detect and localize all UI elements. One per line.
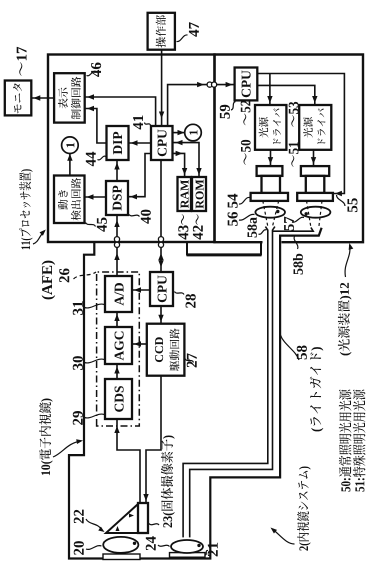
- block DIP 44: [107, 126, 129, 160]
- label 23 CCD sensor: [149, 435, 175, 527]
- label light source device 12: [338, 242, 353, 355]
- objective lens 20: [103, 537, 138, 553]
- label 22 for prism: [74, 510, 106, 534]
- wire DSP to motion detection: [85, 194, 107, 199]
- block motion detection circuit 45: [54, 176, 85, 224]
- light source 51 lamp housing: [301, 166, 329, 193]
- light guide wall (58a inner / 58b outer): [190, 227, 275, 538]
- label 10 electronic endoscope: [39, 399, 83, 476]
- label 59 for CPU: [220, 102, 236, 119]
- jump circle 1 (at CPU41): [185, 124, 202, 141]
- AFE dash-dot box 26: [97, 272, 140, 426]
- label 46 for display control: [87, 63, 102, 77]
- legend 51 special light source: [353, 390, 366, 492]
- label 51 for lamp: [289, 142, 299, 167]
- label 45 for motion detection: [86, 218, 107, 232]
- label 31 for A/D: [73, 301, 104, 315]
- illumination lens 24: [171, 540, 203, 553]
- lens 56 ellipse: [255, 207, 285, 218]
- wire CPU59 to driver53: [257, 85, 317, 105]
- label 47 for operation unit: [177, 22, 199, 41]
- label 24 illumination lens: [146, 536, 170, 550]
- block monitor 17: [5, 81, 32, 116]
- label 26 for AFE: [59, 268, 96, 282]
- block light source driver 52: [255, 105, 286, 150]
- light ray marks in prism: [116, 514, 135, 532]
- wire driver53 to lamp51: [311, 150, 316, 166]
- wire CPU28 to CPU41 bidirectional: [158, 160, 163, 272]
- label 58b light guide: [293, 236, 303, 274]
- block CPU 41: [151, 126, 173, 160]
- light guide wall (58a outer): [183, 227, 268, 538]
- label 50 for lamp: [241, 140, 251, 165]
- wire operation unit to CPU41: [159, 50, 164, 126]
- label 52 for driver: [241, 100, 251, 125]
- endoscope 10 outline with light-guide channel: [69, 228, 322, 559]
- label 21 illumination window: [205, 543, 218, 557]
- block A/D 31: [105, 276, 132, 312]
- block ROM 42: [192, 177, 206, 211]
- label 2 endoscope system: [269, 467, 311, 551]
- legend 50 normal light source: [339, 390, 352, 492]
- label 58a light guide: [247, 217, 266, 237]
- observation window 20 bar: [103, 554, 140, 560]
- block CDS 29: [105, 379, 132, 419]
- wire CCD drive circuit to AGC: [132, 341, 147, 346]
- block DSP 40: [106, 181, 128, 215]
- label 29 for CDS: [73, 411, 104, 425]
- wire CPU28 to CCD drive circuit: [158, 306, 163, 324]
- wire CPU28 to A/D: [132, 287, 150, 292]
- lens highlight dots: [133, 210, 308, 547]
- label 44 for DIP: [86, 152, 106, 167]
- wire display control to monitor: [31, 95, 54, 100]
- illumination window 21 bar: [170, 553, 206, 558]
- wire CCD to CDS: [114, 419, 140, 503]
- label 28 for CPU: [175, 292, 196, 308]
- lens 57 ellipse: [301, 207, 331, 218]
- wire CPU41 to jump circle 1b: [173, 130, 185, 135]
- wire CPU41 to ROM: [173, 140, 202, 177]
- label 20 objective lens: [74, 541, 102, 555]
- block CPU 28: [150, 272, 173, 306]
- label 57 lens: [284, 217, 304, 231]
- wire DSP to DIP: [114, 160, 119, 181]
- condenser lens bar 54: [251, 193, 288, 201]
- label (AFE): [42, 261, 56, 300]
- wire AGC to A/D: [114, 312, 119, 327]
- label 40 for DSP: [129, 210, 151, 224]
- wire CPU41 to RAM: [173, 151, 188, 177]
- light cone 51 dashes: [307, 201, 323, 228]
- CCD image sensor 23: [138, 503, 148, 533]
- wire A/D to DSP with connector: [114, 215, 119, 276]
- label 54 lens: [228, 194, 250, 208]
- label 17 for monitor: [17, 47, 27, 76]
- wire CPU41 to DSP: [128, 154, 151, 200]
- processor device box 11: [48, 55, 215, 243]
- wire CCD drive to CCD: [143, 376, 161, 503]
- wire CPU59 to driver52 and lens55: [257, 74, 344, 197]
- label 43 for RAM: [178, 214, 188, 239]
- connector circles on A/D-DSP wire: [114, 237, 119, 248]
- block operation unit 47: [148, 13, 175, 50]
- label 55 lens: [337, 195, 358, 212]
- block CCD drive circuit 27: [147, 324, 185, 376]
- wire motion detection to jump circle 1: [67, 154, 72, 176]
- wire CPU41 to DIP: [129, 140, 152, 145]
- connector circles on CPU28-CPU41 wire: [158, 237, 163, 248]
- light guide collector wall (58b): [273, 228, 314, 232]
- label 30 for AGC: [73, 356, 104, 370]
- label 27 for CCD drive: [185, 353, 197, 367]
- wire CPU41 to CPU59 via connector: [168, 82, 235, 126]
- block display control circuit 46: [54, 73, 85, 122]
- jump circle 1 (from motion detection): [62, 137, 79, 154]
- condenser lens bar 55: [297, 193, 333, 201]
- label 41 for CPU: [133, 115, 150, 129]
- label 11 processor device: [19, 169, 47, 249]
- label 53 for driver: [289, 102, 299, 127]
- endoscope connector tab: [187, 242, 262, 255]
- block AGC 30: [105, 327, 132, 364]
- block RAM 43: [178, 177, 192, 211]
- light cone 50 dashes: [263, 201, 279, 227]
- light source 50 lamp housing: [257, 166, 283, 193]
- light source device box 12: [215, 55, 364, 243]
- label 42 for ROM: [193, 214, 203, 239]
- label 56 lens: [228, 212, 255, 226]
- block CPU 59: [235, 68, 258, 101]
- prism 22: [106, 504, 138, 533]
- wire video path CDS to AGC: [114, 364, 119, 379]
- wire CPU41 to display control: [85, 94, 156, 126]
- label 58 light guide: [281, 335, 324, 431]
- wire DIP to display control: [85, 106, 107, 143]
- connector circles on CPU41-CPU59 wire: [207, 82, 217, 87]
- wire driver52 to lamp50: [268, 150, 273, 166]
- block light source driver 53: [299, 105, 331, 150]
